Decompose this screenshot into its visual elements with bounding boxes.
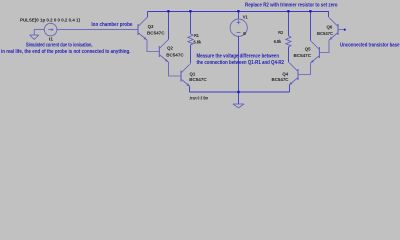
transistor Q4 — [289, 63, 298, 86]
wire rail to V1 — [238, 12, 240, 20]
wire I1 to Q3 base — [57, 28, 138, 30]
svg-text:Q1: Q1 — [190, 72, 196, 78]
svg-text:Replace R2 with trimmer resist: Replace R2 with trimmer resistor to set … — [245, 2, 338, 8]
wire Q5 collector to rail — [310, 12, 312, 41]
wire rail to R1 — [190, 12, 192, 34]
wire Q1 emitter to bottom rail — [189, 87, 191, 93]
svg-text:BC547C: BC547C — [294, 53, 312, 59]
transistor Q3 — [138, 18, 147, 41]
wire Q5 emitter to Q4 base — [298, 63, 311, 75]
ground at I1 — [30, 29, 39, 39]
bottom rail — [190, 91, 290, 93]
wire R1 to Q1 collector — [190, 45, 192, 64]
svg-text:9: 9 — [243, 31, 246, 37]
svg-text:I1: I1 — [49, 36, 53, 42]
transistor Q5 — [310, 41, 319, 64]
node junction Q5C-rail — [309, 10, 311, 12]
svg-text:6.8k: 6.8k — [194, 40, 202, 46]
svg-text:Q5: Q5 — [305, 47, 311, 53]
svg-text:Q2: Q2 — [167, 46, 173, 52]
wire ground to I1 — [34, 28, 44, 30]
svg-text:PULSE(0 1p 0.2 0 0 0.2 0.4 1): PULSE(0 1p 0.2 0 0 0.2 0.4 1) — [20, 18, 80, 24]
top supply rail — [148, 12, 329, 18]
wire Q6 unconnected base stub — [338, 29, 344, 31]
resistor R2 — [286, 36, 291, 47]
svg-text:Simulated current due to ionis: Simulated current due to ionisation, — [26, 43, 93, 49]
svg-text:BC547C: BC547C — [189, 77, 207, 83]
current source I1 — [44, 23, 57, 36]
node junction Q2C-rail — [167, 10, 169, 12]
svg-text:Q3: Q3 — [148, 24, 154, 30]
wire Q2 collector to rail — [168, 12, 170, 40]
wire Q3 emitter to Q2 base — [147, 40, 159, 52]
svg-text:6.8k: 6.8k — [274, 39, 282, 45]
svg-text:Q4: Q4 — [282, 71, 288, 77]
voltage source V1 — [230, 19, 247, 36]
pin marker at Q6 base — [344, 29, 346, 31]
svg-text:Ion chamber probe: Ion chamber probe — [91, 22, 132, 28]
svg-text:.tran 0 3 5m: .tran 0 3 5m — [189, 95, 208, 101]
node junction R2-rail — [287, 10, 289, 12]
svg-text:Q6: Q6 — [327, 24, 333, 30]
transistor Q2 — [159, 40, 168, 63]
svg-text:R2: R2 — [278, 30, 283, 36]
svg-text:BC547C: BC547C — [317, 31, 333, 37]
svg-text:R1: R1 — [194, 33, 199, 39]
svg-text:V1: V1 — [243, 15, 248, 21]
svg-text:Measure the voltage difference: Measure the voltage difference between — [197, 53, 280, 59]
svg-text:Unconnected transistor base: Unconnected transistor base — [340, 42, 400, 48]
wire Q2 emitter to Q1 base — [169, 62, 182, 76]
svg-text:BC547C: BC547C — [272, 77, 289, 83]
resistor R1 — [188, 34, 193, 45]
node junction V1-bottom rail — [237, 91, 239, 93]
wire Q3 collector to rail — [147, 12, 149, 18]
svg-text:the connection between Q1-R1 a: the connection between Q1-R1 and Q4-R2 — [197, 60, 285, 66]
transistor Q1 — [181, 64, 190, 87]
transistor Q6 — [329, 18, 338, 41]
wire V1 to bottom rail — [238, 36, 240, 92]
svg-text:BC547C: BC547C — [166, 52, 184, 58]
wire R2 to Q4 collector — [288, 47, 290, 63]
ground at bottom rail — [233, 92, 244, 108]
wire rail to R2 — [288, 12, 290, 36]
svg-text:BC547C: BC547C — [147, 31, 165, 37]
svg-text:in real life, the end of the p: in real life, the end of the probe is no… — [1, 49, 131, 55]
node junction V1-rail — [237, 10, 239, 12]
wire Q6 emitter to Q5 base — [319, 40, 329, 53]
node junction R1-rail — [189, 10, 191, 12]
wire Q4 emitter to bottom rail — [289, 85, 291, 92]
